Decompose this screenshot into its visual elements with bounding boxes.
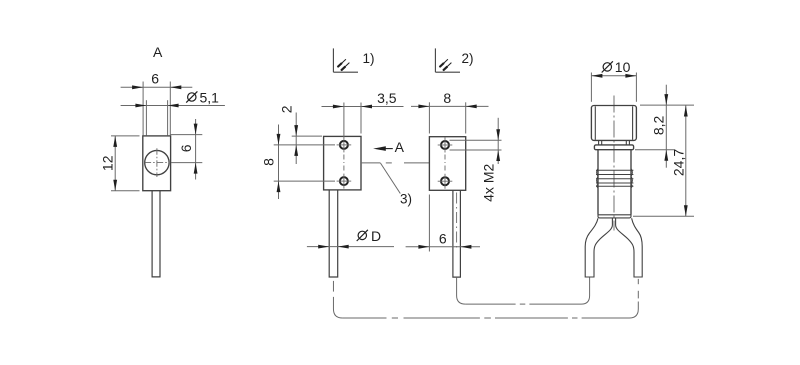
dimension 6 (cable position) <box>428 195 430 252</box>
svg-text:A: A <box>395 139 405 155</box>
dimension 8 (plate width) <box>411 105 489 107</box>
ext line body left edge <box>142 82 144 136</box>
dimension &#8960;10 <box>590 73 592 102</box>
svg-text:12: 12 <box>100 155 116 171</box>
mid-left plate centerline <box>343 155 345 173</box>
ext line plate left edge up <box>428 102 430 133</box>
dimension 24,7 (connector length) <box>633 215 694 217</box>
view A lens centerlines <box>156 148 158 177</box>
connector barrel <box>597 150 599 215</box>
svg-text:A: A <box>153 44 163 60</box>
view A cable <box>152 191 160 277</box>
svg-text:2): 2) <box>461 51 473 66</box>
svg-text:5,1: 5,1 <box>200 89 220 105</box>
ext line plate right edge up <box>465 102 467 133</box>
surface symbol 2) <box>434 48 436 72</box>
fiber route: mid-left cable to right prong (outer) <box>332 281 334 292</box>
mid-left mounting plate <box>324 136 361 190</box>
svg-text:8: 8 <box>260 158 276 166</box>
svg-text:3,5: 3,5 <box>377 90 397 106</box>
ext line plate right edge up <box>360 103 362 134</box>
svg-text:1): 1) <box>362 51 374 66</box>
mid-right cable <box>453 190 461 277</box>
connector head cap <box>591 106 636 141</box>
mid-left hole M2 lower <box>340 177 348 185</box>
dimension 3,5 <box>322 106 404 108</box>
svg-text:10: 10 <box>615 59 631 75</box>
ext line hole left <box>145 100 147 135</box>
ext line hole center up <box>343 103 345 138</box>
dimension &#8960;5,1 (hole dia) <box>121 105 225 107</box>
dimension 2 (hole offset from top) <box>292 135 322 137</box>
svg-text:6: 6 <box>178 144 194 152</box>
left prong (fiber tube) <box>585 218 612 277</box>
connector ribs <box>596 169 633 171</box>
right prong (fiber tube) <box>616 218 643 277</box>
dimension 8 (hole pitch) <box>274 144 335 146</box>
leader 3) <box>381 163 401 193</box>
svg-text:8: 8 <box>443 90 451 106</box>
dimension 4x M2 <box>450 139 502 141</box>
mid-right cable centerline <box>456 193 458 252</box>
view A lens hole <box>145 150 169 174</box>
surface symbol 1) <box>332 48 334 72</box>
ext line body right edge <box>169 82 171 136</box>
mid-left cable <box>329 190 338 277</box>
section arrow A <box>373 146 386 151</box>
connector head silhouette lines <box>594 106 596 140</box>
mid-left hole M2 upper <box>340 141 348 149</box>
connector flange washer <box>594 145 633 150</box>
mid-right hole M2 lower <box>441 177 449 185</box>
svg-text:6: 6 <box>439 231 447 247</box>
mid-right hole M2 upper <box>441 141 449 149</box>
dimension 6 (body width) <box>121 86 193 88</box>
svg-text:D: D <box>371 228 381 244</box>
mid-right mounting plate <box>429 137 465 191</box>
optical axis line between views <box>361 162 381 164</box>
dimension 12 (body height) <box>111 135 140 137</box>
connector boot band <box>598 215 631 218</box>
view A sensor body <box>143 136 171 191</box>
svg-text:3): 3) <box>400 192 412 207</box>
connector center axis <box>613 96 615 231</box>
svg-text:24,7: 24,7 <box>670 149 686 176</box>
dimension 8,2 (head height) <box>640 104 694 106</box>
dimension 6 (hole center offset) <box>171 134 203 136</box>
connector neck <box>598 140 600 145</box>
mid-right plate centerline <box>444 155 446 173</box>
dimension &#8960;D (cable dia) <box>307 246 394 248</box>
svg-text:8,2: 8,2 <box>650 115 666 135</box>
svg-text:2: 2 <box>279 105 295 113</box>
svg-text:4x M2: 4x M2 <box>481 164 497 202</box>
fiber route: mid-right cable to left prong (inner) <box>457 278 466 304</box>
svg-text:6: 6 <box>151 70 159 86</box>
ext line hole right <box>167 100 169 135</box>
